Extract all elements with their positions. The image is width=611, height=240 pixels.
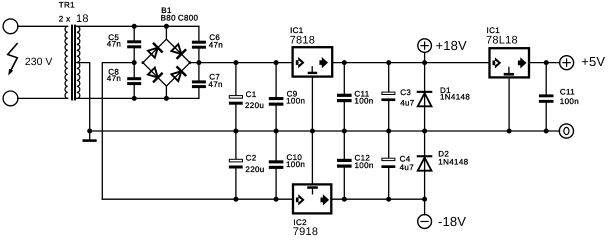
node bottom wire C8 junction bbox=[132, 96, 137, 101]
label 230 V bbox=[25, 56, 52, 68]
label D1 value bbox=[440, 93, 470, 102]
IC1 input arrow bbox=[296, 57, 305, 68]
label C6 value bbox=[209, 40, 223, 49]
label IC2 bbox=[293, 218, 307, 227]
terminal 0V bbox=[559, 124, 573, 138]
label C2 value bbox=[245, 165, 264, 174]
node ground 0V rail bbox=[87, 129, 92, 134]
label +18V bbox=[436, 38, 468, 53]
wire 0V rail bbox=[90, 130, 560, 132]
node C11 0V rail bbox=[342, 129, 347, 134]
node top wire bridge junction bbox=[164, 24, 169, 29]
label D2 value bbox=[438, 158, 468, 167]
svg-text:C2: C2 bbox=[246, 154, 257, 163]
label 7818 bbox=[290, 35, 315, 47]
label C12 value bbox=[355, 161, 374, 170]
diode bridge top-right bbox=[171, 44, 185, 58]
label C6 bbox=[209, 33, 220, 42]
svg-text:220u: 220u bbox=[245, 101, 264, 110]
node C11b +5V rail bbox=[544, 60, 549, 65]
diode bridge bottom-left bbox=[147, 67, 161, 81]
svg-text:47n: 47n bbox=[209, 40, 223, 49]
capacitor C7 bbox=[192, 80, 206, 88]
78L18 input arrow bbox=[493, 57, 502, 68]
label D2 bbox=[438, 150, 449, 159]
wire D1 D2 column bbox=[424, 63, 426, 200]
label C2 bbox=[246, 154, 257, 163]
svg-text:7918: 7918 bbox=[293, 226, 318, 238]
wire C3 C4 column bbox=[388, 63, 390, 200]
svg-text:+18V: +18V bbox=[436, 38, 468, 53]
wire IC1 ground stub bbox=[311, 78, 313, 131]
label C1 bbox=[246, 90, 257, 99]
label C12 bbox=[355, 154, 371, 163]
svg-text:C3: C3 bbox=[400, 88, 411, 97]
wire bridge bottom stub bbox=[165, 86, 167, 98]
label C8 bbox=[108, 67, 119, 76]
label C10 value bbox=[286, 160, 305, 169]
wire bridge top stub bbox=[165, 26, 167, 39]
terminal J1 (mains input top) bbox=[3, 19, 18, 34]
svg-text:1N4148: 1N4148 bbox=[438, 158, 468, 167]
node C1 positive rail bbox=[233, 60, 238, 65]
capacitor C3 bbox=[381, 92, 395, 101]
svg-text:230 V: 230 V bbox=[25, 56, 52, 68]
node D2 negative rail bbox=[422, 197, 427, 202]
wire C6 C7 column bbox=[198, 26, 200, 98]
wire IC2 output to -18V bbox=[332, 198, 424, 200]
label C3 value bbox=[400, 99, 415, 108]
svg-text:2 x: 2 x bbox=[59, 14, 71, 23]
svg-text:C11: C11 bbox=[560, 88, 575, 97]
terminal -18V bbox=[418, 199, 432, 228]
label C9 value bbox=[286, 97, 305, 106]
label C10 bbox=[287, 153, 303, 162]
svg-text:100n: 100n bbox=[355, 161, 374, 170]
wire IC1 output rail bbox=[333, 62, 488, 64]
transformer TR1 primary winding bbox=[65, 26, 68, 98]
label IC1 78L18 bbox=[487, 26, 501, 35]
node C11b 0V rail bbox=[544, 129, 549, 134]
label C8 value bbox=[107, 74, 121, 83]
svg-text:220u: 220u bbox=[245, 165, 264, 174]
node bridge right corner bbox=[189, 61, 192, 64]
IC2 output arrow bbox=[321, 194, 330, 205]
label 78L18 bbox=[486, 35, 518, 47]
wire secondary bottom to bridge bbox=[77, 97, 199, 99]
label C9 bbox=[287, 90, 298, 99]
node C11 positive rail bbox=[342, 60, 347, 65]
wire center tap bbox=[77, 63, 90, 131]
capacitor C6 bbox=[192, 41, 206, 49]
transformer TR1 core bbox=[71, 25, 76, 101]
node IC stub 0V rail bbox=[310, 129, 315, 134]
svg-text:4u7: 4u7 bbox=[400, 163, 415, 172]
diode bridge bottom-right bbox=[171, 67, 185, 81]
svg-text:47n: 47n bbox=[208, 80, 222, 89]
lightning bolt 230V symbol bbox=[8, 44, 18, 76]
capacitor C12 bbox=[337, 159, 352, 168]
capacitor C8 bbox=[127, 77, 141, 85]
op-amp-box IC1 78L18 regulator bbox=[490, 48, 530, 77]
capacitor C4 bbox=[381, 158, 395, 168]
node D1 0V rail bbox=[422, 129, 427, 134]
capacitor C10 bbox=[269, 160, 284, 169]
svg-text:IC1: IC1 bbox=[487, 26, 501, 35]
node C2 negative rail bbox=[233, 197, 238, 202]
capacitor C1 bbox=[229, 96, 243, 105]
wire bottom input to primary bbox=[18, 97, 68, 99]
node C10 negative rail bbox=[274, 197, 279, 202]
IC2 input arrow bbox=[296, 194, 305, 205]
label B80C800 bbox=[161, 14, 199, 23]
label C11 output bbox=[560, 88, 575, 97]
label TR1 bbox=[59, 1, 75, 10]
svg-text:IC1: IC1 bbox=[290, 26, 304, 35]
node C5 C8 mid junction bbox=[132, 60, 137, 65]
wire C1 C2 column bbox=[235, 63, 237, 200]
capacitor C9 bbox=[269, 97, 284, 106]
capacitor C5 bbox=[127, 40, 141, 48]
node D1 +18V rail bbox=[422, 60, 427, 65]
svg-text:100n: 100n bbox=[286, 160, 305, 169]
label 7918 bbox=[293, 226, 318, 238]
capacitor C2 bbox=[229, 159, 243, 168]
wire C5 C8 column bbox=[133, 26, 135, 98]
ground bbox=[83, 131, 97, 142]
label D1 bbox=[440, 86, 451, 95]
svg-text:TR1: TR1 bbox=[59, 1, 75, 10]
terminal +18V bbox=[418, 39, 432, 63]
label C11 output value bbox=[560, 97, 579, 106]
label C7 bbox=[209, 73, 220, 82]
svg-text:B80 C800: B80 C800 bbox=[161, 14, 199, 23]
label +5V bbox=[581, 54, 605, 69]
diode bridge top-left bbox=[147, 44, 161, 58]
wire negative dc from bridge left corner bbox=[102, 63, 134, 200]
wire C11 C12 column bbox=[343, 63, 345, 200]
node bottom wire bridge junction bbox=[164, 96, 169, 101]
label C11 bbox=[354, 90, 369, 99]
label IC1 bbox=[290, 26, 304, 35]
node C9 positive rail bbox=[274, 60, 279, 65]
78L18 internal ground symbol bbox=[504, 67, 514, 75]
wire top input to primary bbox=[18, 25, 68, 27]
node C9 0V rail bbox=[274, 129, 279, 134]
svg-text:78L18: 78L18 bbox=[486, 35, 518, 47]
node C6 C7 mid junction bbox=[196, 60, 201, 65]
node C4 negative rail bbox=[386, 197, 391, 202]
node C12 negative rail bbox=[342, 197, 347, 202]
label C11 value bbox=[354, 97, 373, 106]
svg-text:4u7: 4u7 bbox=[400, 99, 415, 108]
diode D2 bbox=[417, 155, 433, 171]
wire positive rail bridge to IC1 bbox=[190, 62, 292, 64]
svg-text:7818: 7818 bbox=[290, 35, 315, 47]
node bridge left corner bbox=[142, 61, 145, 64]
78L18 output arrow bbox=[518, 57, 527, 68]
node C1 0V rail bbox=[233, 129, 238, 134]
diode D1 bbox=[417, 91, 433, 107]
label B1 bbox=[161, 6, 172, 15]
label C1 value bbox=[245, 101, 264, 110]
node C3 positive rail bbox=[386, 60, 391, 65]
wire 78L18 output to +5V bbox=[529, 62, 560, 64]
IC1 output arrow bbox=[319, 57, 328, 68]
terminal J2 (mains input bottom) bbox=[3, 91, 18, 106]
node 78L18 stub 0V rail bbox=[507, 129, 512, 134]
label C5 bbox=[108, 33, 119, 42]
svg-text:18: 18 bbox=[76, 13, 89, 25]
label C4 value bbox=[400, 163, 415, 172]
capacitor C11 output bbox=[539, 94, 554, 102]
wire secondary top to bridge bbox=[77, 25, 199, 27]
transformer TR1 secondary winding bbox=[77, 26, 80, 98]
svg-text:47n: 47n bbox=[107, 39, 121, 48]
label C7 value bbox=[208, 80, 222, 89]
IC1 internal ground symbol bbox=[308, 67, 318, 74]
label C3 bbox=[400, 88, 411, 97]
wire 78L18 ground stub bbox=[508, 79, 510, 132]
bridge rectifier B1 diamond bbox=[143, 39, 190, 86]
svg-text:47n: 47n bbox=[107, 74, 121, 83]
wire IC2 ground stub bbox=[311, 131, 313, 184]
svg-text:+5V: +5V bbox=[581, 54, 605, 69]
IC2 internal inverted ground symbol bbox=[307, 186, 318, 194]
node C3 0V rail bbox=[386, 129, 391, 134]
label -18V bbox=[438, 214, 466, 229]
svg-text:C1: C1 bbox=[246, 90, 257, 99]
op-amp-box IC1 7818 regulator bbox=[293, 47, 333, 76]
wire C11b column bbox=[545, 63, 547, 131]
terminal +5V bbox=[560, 56, 574, 70]
label 2 x 18 bbox=[59, 13, 89, 25]
svg-text:1N4148: 1N4148 bbox=[440, 93, 470, 102]
wire C9 C10 column bbox=[275, 63, 277, 200]
svg-text:100n: 100n bbox=[560, 97, 579, 106]
svg-text:-18V: -18V bbox=[438, 214, 466, 229]
op-amp-box IC2 7918 regulator bbox=[293, 184, 331, 213]
svg-text:100n: 100n bbox=[286, 97, 305, 106]
svg-text:100n: 100n bbox=[354, 97, 373, 106]
label C4 bbox=[400, 154, 411, 163]
capacitor C11 bbox=[337, 94, 352, 103]
wire negative rail to IC2 bbox=[102, 198, 292, 200]
node top wire C5 junction bbox=[132, 24, 137, 29]
label C5 value bbox=[107, 39, 121, 48]
